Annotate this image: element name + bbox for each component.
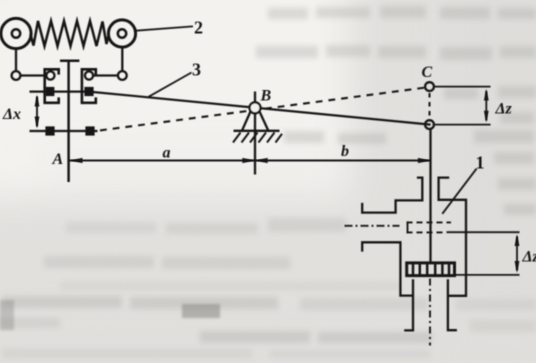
plug dashed left cap bbox=[407, 221, 409, 233]
svg-text:Δx: Δx bbox=[2, 106, 21, 123]
dimension line a bbox=[70, 160, 255, 162]
arrow b right bbox=[418, 158, 431, 163]
arrow dz2 up bbox=[515, 234, 520, 246]
link rod left horizontal bbox=[20, 74, 46, 76]
plug dashed upper position bottom bbox=[407, 231, 444, 233]
arrow b left bbox=[255, 158, 268, 163]
valve seat wall right bbox=[448, 279, 457, 330]
bracket pin left bbox=[46, 71, 54, 79]
svg-text:3: 3 bbox=[192, 60, 201, 80]
svg-text:A: A bbox=[52, 151, 64, 168]
svg-text:b: b bbox=[341, 143, 349, 160]
dashed stem travel C bbox=[429, 93, 431, 118]
lever 3 bbox=[89, 92, 431, 125]
leader 3 bbox=[149, 73, 192, 97]
rod A top bar bbox=[60, 60, 79, 63]
svg-text:2: 2 bbox=[194, 18, 203, 38]
spring between pulleys bbox=[30, 21, 108, 46]
valve bonnet right bbox=[439, 178, 466, 296]
valve plug bbox=[407, 263, 455, 276]
valve stem 1 bbox=[429, 129, 431, 263]
svg-text:a: a bbox=[163, 145, 171, 162]
extension line stem top bbox=[434, 124, 490, 126]
arrow a left bbox=[70, 158, 83, 163]
pulley right hub bbox=[118, 29, 126, 37]
pivot B vertical line bbox=[254, 92, 256, 175]
link pin right bbox=[118, 71, 127, 80]
link pin left bbox=[12, 71, 21, 80]
node C pin bbox=[425, 82, 434, 91]
arrow a right bbox=[242, 158, 255, 163]
extension line C bbox=[434, 86, 490, 88]
valve bonnet left bbox=[362, 178, 422, 213]
pivot B pin bbox=[250, 102, 261, 113]
flapper lower line bbox=[30, 130, 98, 132]
arrow dx down bbox=[35, 117, 40, 129]
flapper block upper-right bbox=[84, 87, 93, 96]
link rod right horizontal bbox=[93, 74, 118, 76]
guide bracket left bbox=[45, 69, 59, 103]
extension line upper plug bbox=[447, 231, 520, 233]
leader 1 bbox=[442, 169, 476, 214]
pipe centerline bbox=[345, 225, 400, 227]
pulley left hub bbox=[12, 29, 20, 37]
arrow dx up bbox=[35, 95, 40, 107]
dimension line b bbox=[255, 160, 431, 162]
dimension dz upper line bbox=[485, 91, 487, 121]
dimension dx line bbox=[36, 97, 38, 127]
plug ribs bbox=[413, 263, 449, 276]
arrow dz down bbox=[484, 111, 489, 123]
svg-text:Δz: Δz bbox=[522, 249, 536, 266]
valve seat wall left bbox=[404, 279, 413, 330]
link rod right vertical bbox=[121, 47, 123, 71]
pulley wheel left (2) bbox=[1, 18, 31, 48]
rod A vertical bbox=[67, 61, 70, 182]
pivot B support triangle bbox=[234, 112, 280, 131]
flapper upper line bbox=[30, 90, 90, 92]
svg-text:1: 1 bbox=[476, 153, 485, 173]
dimension dz lower line bbox=[516, 237, 518, 271]
link rod left vertical bbox=[15, 48, 17, 71]
bottom centerline bbox=[429, 279, 431, 346]
flapper block lower-left bbox=[45, 126, 54, 135]
dashed displaced lever bbox=[100, 88, 425, 131]
arrow dz2 down bbox=[515, 261, 520, 273]
pivot B hatching bbox=[233, 133, 282, 143]
bracket pin right bbox=[85, 71, 93, 79]
leader 2 bbox=[134, 26, 193, 30]
arrow dz up bbox=[484, 89, 489, 101]
pulley wheel right (2) bbox=[108, 20, 135, 47]
extension line lower plug bbox=[455, 274, 520, 276]
guide bracket right bbox=[82, 69, 96, 103]
flapper block lower-right bbox=[85, 126, 94, 135]
valve body left bbox=[362, 242, 413, 295]
filled parts bbox=[35, 87, 520, 273]
flapper block upper-left bbox=[45, 87, 54, 96]
svg-text:Δz: Δz bbox=[495, 101, 513, 118]
svg-text:C: C bbox=[422, 64, 433, 81]
plug dashed upper position top bbox=[407, 221, 452, 223]
svg-text:B: B bbox=[260, 88, 272, 105]
stem top pin bbox=[425, 120, 434, 129]
